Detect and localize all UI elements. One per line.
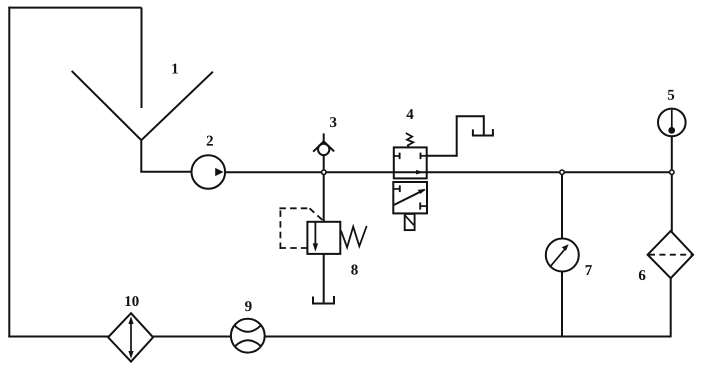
node A junction circle bbox=[322, 170, 326, 174]
filter 6 dashed element bbox=[649, 254, 692, 256]
valve 4 spring bbox=[406, 133, 414, 147]
cooler 10 arrowhead down bbox=[128, 351, 133, 359]
label 1 bbox=[172, 64, 178, 74]
flow indicator 9 lower arc bbox=[235, 340, 261, 346]
relief valve 8 pilot dashed bottom bbox=[280, 247, 307, 249]
check valve 3 seat right bbox=[324, 141, 334, 151]
label 4 bbox=[406, 109, 413, 119]
valve 4 lower box left port stub bbox=[393, 188, 400, 190]
label 6 bbox=[639, 270, 646, 280]
wire valve 4 to junction B bbox=[427, 171, 560, 173]
pump U2 flow triangle bbox=[215, 168, 223, 176]
valve 4 lower box right port stub bbox=[420, 205, 427, 207]
relief valve 8 supply stub into box bbox=[323, 219, 325, 223]
wire junction A to valve 4 bbox=[326, 171, 394, 173]
label 2 bbox=[207, 136, 213, 146]
label 7 bbox=[586, 265, 592, 275]
relief valve 8 internal flow line bbox=[314, 222, 316, 245]
wire top horizontal bbox=[8, 7, 141, 9]
wire relief valve 8 to drain tank bbox=[323, 254, 325, 303]
valve 4 through-flow line bbox=[394, 171, 427, 173]
gauge 7 needle bbox=[551, 249, 565, 266]
check valve 3 seat left bbox=[313, 141, 324, 151]
pilot line drop into vent tank bbox=[483, 115, 485, 134]
valve 4 lower position box bbox=[393, 182, 427, 213]
wire junction B down to gauge 7 bbox=[561, 174, 563, 239]
valve 4 upper box left port crossbar bbox=[399, 153, 401, 160]
valve 4 upper box right port crossbar bbox=[420, 153, 422, 160]
pilot line horizontal top bbox=[456, 115, 484, 117]
vent tank symbol bbox=[473, 129, 493, 136]
relief valve 8 pilot dashed top bbox=[279, 207, 309, 209]
wire filter 6 to bottom line bbox=[670, 278, 672, 337]
node C junction circle bbox=[670, 170, 674, 174]
relief valve 8 internal arrowhead bbox=[313, 243, 318, 251]
tank 1 funnel right arm bbox=[141, 72, 213, 141]
label 10 bbox=[125, 296, 138, 306]
wire thermometer to junction C bbox=[671, 136, 673, 170]
cooler 10 internal arrow line bbox=[130, 320, 132, 356]
wire bottom line flow indicator to right corner bbox=[265, 336, 671, 338]
valve 4 lower box right port crossbar bbox=[419, 203, 421, 210]
valve 4 plugged drain diagonal bbox=[405, 215, 414, 225]
cooler 10 arrowhead up bbox=[128, 316, 133, 324]
wire tank to pump bbox=[140, 171, 191, 173]
relief valve 8 pilot dashed left vertical bbox=[279, 208, 281, 249]
wire return drop into tank bbox=[141, 8, 143, 108]
gauge 7 circle bbox=[546, 239, 579, 272]
valve 4 through-flow arrowhead bbox=[416, 170, 423, 175]
valve 4 lower box left port crossbar bbox=[399, 185, 401, 192]
valve 4 lower box diagonal arrowhead bbox=[418, 189, 426, 194]
wire junction A down to relief valve 8 bbox=[323, 174, 325, 221]
thermometer 5 circle bbox=[658, 109, 686, 137]
relief valve 8 pilot dashed diagonal bbox=[310, 208, 323, 220]
valve 4 upper box right port stub bbox=[421, 155, 427, 157]
wire check valve to junction A bbox=[323, 155, 325, 170]
gauge 7 needle arrowhead bbox=[562, 244, 569, 251]
relief valve 8 spring bbox=[341, 226, 367, 247]
valve 4 lower box diagonal flow line bbox=[394, 190, 424, 205]
tank 1 funnel left arm bbox=[72, 71, 142, 140]
wire pump outlet to junction A bbox=[225, 171, 322, 173]
wire left vertical bbox=[8, 7, 10, 338]
check valve 3 stem bbox=[323, 133, 325, 143]
cooler 10 diamond bbox=[108, 313, 153, 361]
node B junction circle bbox=[560, 170, 564, 174]
label 8 bbox=[351, 265, 358, 275]
drain tank symbol under valve 8 bbox=[313, 296, 334, 304]
valve 4 upper position box bbox=[394, 147, 427, 178]
flow indicator 9 upper arc bbox=[235, 325, 262, 332]
thermometer 5 bulb bbox=[668, 127, 675, 134]
label 9 bbox=[245, 301, 252, 311]
label 3 bbox=[330, 117, 336, 127]
wire gauge 7 to bottom line bbox=[561, 272, 563, 337]
flow indicator 9 circle bbox=[231, 319, 265, 353]
wire bottom return line left segment bbox=[8, 336, 108, 338]
valve 4 upper box left port stub bbox=[394, 155, 400, 157]
thermometer 5 stem bbox=[671, 110, 673, 128]
check valve 3 ball bbox=[318, 144, 329, 155]
wire bottom line cooler to flow indicator bbox=[153, 336, 231, 338]
pilot line from valve 4 horizontal bbox=[427, 155, 457, 157]
valve 4 plugged drain box bbox=[405, 214, 415, 230]
label 5 bbox=[668, 90, 674, 100]
wire junction B to junction C bbox=[564, 171, 672, 173]
wire tank outlet vertical bbox=[140, 139, 142, 172]
wire junction C to filter 6 bbox=[671, 174, 673, 232]
pilot line vertical up bbox=[456, 116, 458, 157]
filter 6 diamond bbox=[648, 231, 694, 278]
pump U2 circle bbox=[192, 155, 226, 189]
relief valve 8 body box bbox=[307, 222, 340, 254]
